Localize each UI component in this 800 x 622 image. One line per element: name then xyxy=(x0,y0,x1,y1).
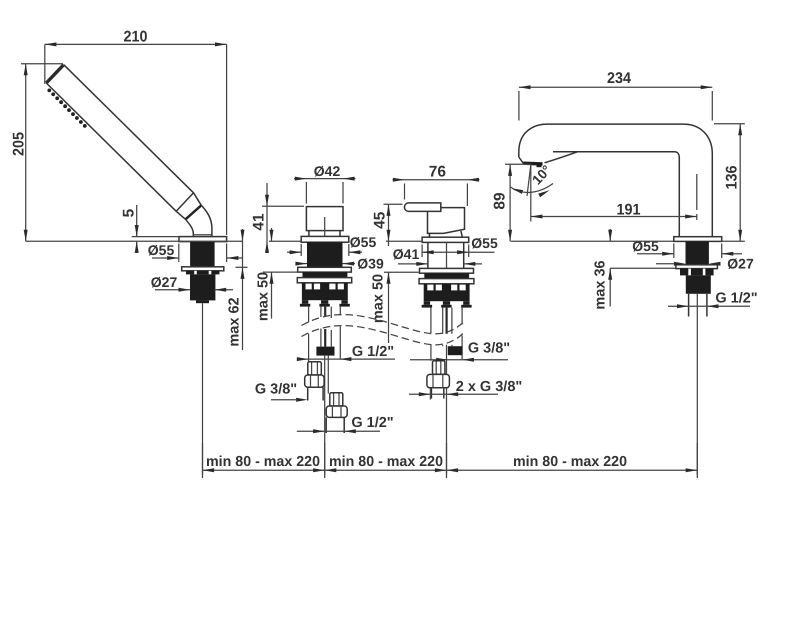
dim O27 spout line xyxy=(656,263,674,265)
mixer escutcheon flange xyxy=(422,237,469,242)
diverter hex fitting 2 collar xyxy=(330,393,343,406)
svg-text:Ø55: Ø55 xyxy=(350,234,377,250)
mixer center line upper xyxy=(446,242,448,268)
mixer hex fitting nut xyxy=(427,374,450,387)
svg-text:Ø27: Ø27 xyxy=(727,256,754,272)
chain ext line 1 xyxy=(202,443,204,478)
svg-text:76: 76 xyxy=(429,164,447,181)
dim 5 line upper xyxy=(136,205,138,237)
spout escutcheon flange xyxy=(674,237,722,242)
hand shower shank upper (black) xyxy=(190,242,215,267)
deck line segment 2 xyxy=(269,240,301,242)
dim O55 unit2 ext lines xyxy=(421,245,423,258)
break line lower xyxy=(302,326,465,345)
diverter hex 1 stub xyxy=(307,387,309,400)
deck line segment 5 xyxy=(722,240,745,242)
mixer body xyxy=(428,208,465,234)
diverter knob neck xyxy=(308,231,310,237)
dim max50 unit2 extension xyxy=(384,271,420,273)
spout tip face xyxy=(519,157,524,163)
dim 5 extension xyxy=(132,236,179,238)
svg-text:max 50: max 50 xyxy=(371,274,387,323)
dim 45 extension xyxy=(384,203,403,205)
svg-text:45: 45 xyxy=(372,211,389,229)
svg-text:2 x G 3/8": 2 x G 3/8" xyxy=(456,379,523,395)
dim 234 line xyxy=(519,86,712,88)
diverter right leg and foot xyxy=(341,300,347,304)
diverter plate 3 xyxy=(297,278,351,283)
10 deg arc arrow right xyxy=(538,188,550,197)
diverter left mounting stud xyxy=(308,307,310,323)
mixer center line lower xyxy=(446,345,448,475)
diverter hex fitting 2 nut xyxy=(326,406,347,417)
mixer hose bracket (black) xyxy=(448,346,463,355)
svg-text:136: 136 xyxy=(724,165,741,189)
diverter body (black) xyxy=(307,242,343,267)
mixer neck xyxy=(429,234,431,238)
dim O27 handshower line xyxy=(155,289,190,291)
mixer plate 2 xyxy=(419,279,474,284)
svg-text:Ø42: Ø42 xyxy=(314,163,341,179)
dim 2 x G 3/8 extension xyxy=(429,389,431,400)
svg-text:G 3/8": G 3/8" xyxy=(468,340,510,356)
chain ext line 4 xyxy=(696,443,698,478)
dim 210 extension right xyxy=(226,44,228,235)
hand shower swivel collar right edge xyxy=(194,193,202,206)
hand shower base seam xyxy=(193,234,212,236)
spout tailpiece xyxy=(688,294,690,317)
svg-text:Ø55: Ø55 xyxy=(632,238,659,254)
hand shower handle end seam xyxy=(176,193,193,212)
spout locknut (black, slotted) xyxy=(680,269,714,276)
mixer spacer (black) xyxy=(424,273,469,278)
mixer column xyxy=(427,242,429,268)
hand shower handle top edge xyxy=(64,65,194,193)
diverter manifold (black, slotted) xyxy=(302,283,348,300)
diverter center line below bracket xyxy=(324,356,326,475)
dim O55 unit1 ext lines xyxy=(300,244,302,256)
dim G 1/2 spout line xyxy=(668,305,750,307)
svg-text:Ø41: Ø41 xyxy=(393,246,420,262)
spout underside slope xyxy=(545,152,578,163)
dim 205 extension top xyxy=(21,63,63,65)
mixer manifold (black, slotted) xyxy=(424,284,470,301)
dim max50 unit1 extension xyxy=(263,271,298,273)
spout aerator (thick) xyxy=(523,161,542,165)
svg-text:min 80 - max 220: min 80 - max 220 xyxy=(206,454,320,470)
diverter left leg and foot xyxy=(302,300,308,304)
diverter center tube cap xyxy=(321,300,328,304)
svg-text:min 80 - max 220: min 80 - max 220 xyxy=(513,454,627,470)
10 deg stream line xyxy=(527,165,531,196)
mixer hex stub xyxy=(430,388,432,399)
svg-text:234: 234 xyxy=(607,70,631,87)
spout center line xyxy=(696,294,698,475)
dim max36 extension xyxy=(610,267,676,269)
deck line segment 3 xyxy=(386,240,422,242)
mixer center tube lines xyxy=(442,308,444,334)
dim G 1/2 unit1 lower line xyxy=(297,430,380,432)
svg-text:max 36: max 36 xyxy=(593,260,609,309)
dim O55 spout ext lines xyxy=(673,244,675,259)
dim 45 line xyxy=(388,204,390,241)
hand shower locknut (black, slotted) xyxy=(186,271,219,275)
chain arrows xyxy=(203,468,215,472)
svg-text:89: 89 xyxy=(492,192,509,210)
diverter escutcheon flange xyxy=(301,236,349,242)
spout inner edge xyxy=(553,152,679,237)
diverter plate 2 xyxy=(298,267,352,272)
diverter hex fitting 1 nut xyxy=(305,375,324,387)
hand shower hose center line xyxy=(202,303,204,474)
svg-text:G 1/2": G 1/2" xyxy=(351,415,393,431)
chain dim line xyxy=(203,469,698,471)
dim 76 line xyxy=(393,179,480,181)
svg-text:Ø27: Ø27 xyxy=(151,274,178,290)
dim max36 line xyxy=(609,229,611,241)
dim G 1/2 unit1 upper line xyxy=(297,358,395,360)
spout body outline xyxy=(519,124,713,236)
dim O55 handshower ext lines xyxy=(178,244,180,263)
spout shank (black) xyxy=(686,241,709,264)
dim 89 line xyxy=(509,164,511,241)
diverter hose bracket (black) xyxy=(316,347,334,356)
hand shower nozzles xyxy=(47,89,86,128)
dim max50 unit2 line xyxy=(388,241,390,246)
hand shower locknut plate xyxy=(182,267,224,271)
mixer left leg and foot xyxy=(424,301,430,305)
mixer hex fitting collar xyxy=(433,361,445,375)
chain ext line 3 xyxy=(446,443,448,478)
mixer right leg and foot xyxy=(463,301,469,305)
hand shower swivel collar left edge xyxy=(176,211,185,219)
dim 41 extension xyxy=(262,205,304,207)
hand shower shank tail xyxy=(196,300,209,303)
hand shower shank lower (black) xyxy=(190,274,215,300)
mixer left supply stud xyxy=(430,308,432,333)
svg-text:Ø39: Ø39 xyxy=(357,255,384,271)
hand shower collar seam (thick) xyxy=(186,205,202,219)
dim O55 unit1 line xyxy=(287,251,301,253)
diverter hex 2 stub xyxy=(325,417,327,433)
svg-text:Ø55: Ø55 xyxy=(148,242,175,258)
diverter right mounting stud xyxy=(339,307,341,316)
spout locknut plate xyxy=(676,265,718,269)
svg-text:max 62: max 62 xyxy=(227,297,243,346)
dim G 3/8 unit1 leader xyxy=(271,399,296,401)
dim 205 line xyxy=(25,64,27,242)
10 deg arc arrow left xyxy=(511,186,523,194)
spout riser axis line xyxy=(696,174,698,220)
break line upper xyxy=(302,315,465,334)
dim 41 line xyxy=(266,183,268,253)
svg-text:5: 5 xyxy=(121,208,138,217)
mixer plate 1 xyxy=(420,268,474,273)
dim O41 line xyxy=(398,263,428,265)
mixer right supply stud xyxy=(461,308,463,325)
dim max62 extension xyxy=(236,266,248,268)
dim max62 line xyxy=(242,229,244,350)
chain ext line 2 xyxy=(324,443,326,478)
spout thread (black) xyxy=(686,275,711,293)
svg-text:min 80 - max 220: min 80 - max 220 xyxy=(329,454,443,470)
svg-text:Ø55: Ø55 xyxy=(471,235,498,251)
svg-text:210: 210 xyxy=(124,29,148,46)
dim 136 extension xyxy=(714,123,745,125)
hand shower handle bottom edge xyxy=(46,83,176,211)
hand shower escutcheon flange xyxy=(179,237,227,242)
diverter knob xyxy=(306,207,343,231)
dim 89 extension xyxy=(505,163,532,165)
deck line segment 4 xyxy=(511,240,674,242)
dim O42 line xyxy=(294,178,356,180)
dim 234 ext lines xyxy=(518,91,520,121)
diverter center tube lines xyxy=(320,307,322,317)
svg-text:191: 191 xyxy=(617,202,641,219)
dim 136 line xyxy=(739,124,741,242)
hand shower elbow left edge xyxy=(186,219,194,236)
hand shower spray face (thick) xyxy=(46,65,63,83)
svg-text:max 50: max 50 xyxy=(256,272,272,321)
svg-text:G 3/8": G 3/8" xyxy=(255,382,297,398)
svg-text:G 1/2": G 1/2" xyxy=(352,344,394,360)
dim max50 unit1 line xyxy=(271,228,273,241)
dim 5 line lower xyxy=(136,241,138,253)
diverter spacer (black) xyxy=(303,272,348,278)
dim O42 ext lines xyxy=(305,182,307,204)
svg-text:G 1/2": G 1/2" xyxy=(715,291,757,307)
dim 76 ext lines xyxy=(404,184,406,200)
dim O39 line xyxy=(296,263,308,265)
mixer center tube cap xyxy=(443,301,450,305)
mixer lever handle xyxy=(404,203,440,212)
dim O55 unit2 line xyxy=(422,251,494,253)
hand shower elbow right edge xyxy=(201,205,212,236)
diverter knob center mark xyxy=(324,217,326,236)
dim 210 extension left xyxy=(44,44,46,84)
10 deg arc xyxy=(510,184,553,193)
dim O55 spout line xyxy=(637,253,674,255)
diverter tube below bracket xyxy=(327,356,329,394)
dim 210 line xyxy=(45,43,227,45)
dim 2 x G 3/8 line xyxy=(409,393,498,395)
svg-text:205: 205 xyxy=(11,132,28,156)
deck line segment 1 xyxy=(26,240,243,242)
dim G 3/8 unit2 line xyxy=(410,359,508,361)
diverter hex fitting 1 collar xyxy=(308,362,322,375)
dim 191 line xyxy=(531,216,697,218)
dim O55 handshower line xyxy=(152,257,179,259)
svg-text:41: 41 xyxy=(251,213,268,231)
